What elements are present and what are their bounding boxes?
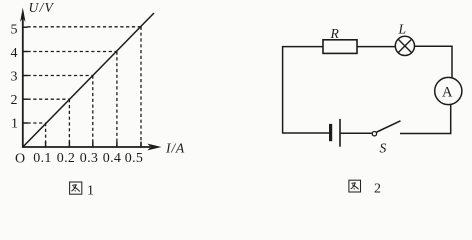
svg-text:2: 2 bbox=[374, 182, 381, 197]
x-axis arrowhead bbox=[148, 144, 162, 151]
svg-text:0.4: 0.4 bbox=[103, 151, 121, 166]
svg-text:4: 4 bbox=[11, 46, 18, 61]
x tick 0.3 bbox=[92, 142, 94, 147]
dashed horizontal U=3 bbox=[28, 75, 93, 77]
svg-text:1: 1 bbox=[87, 184, 94, 199]
x tick 0.2 bbox=[68, 142, 70, 147]
svg-text:0.3: 0.3 bbox=[80, 151, 98, 166]
dashed vertical I=0.2 bbox=[68, 99, 70, 146]
wire lamp to top-right corner bbox=[415, 46, 453, 78]
y tick 5 bbox=[23, 26, 28, 28]
battery positive plate (long thin) bbox=[339, 119, 341, 147]
wire battery to switch bbox=[340, 132, 372, 134]
wire bottom-left to battery bbox=[282, 132, 330, 134]
wire resistor to lamp bbox=[357, 46, 395, 48]
U-I characteristic line bbox=[23, 13, 154, 147]
svg-text:5: 5 bbox=[11, 22, 18, 37]
caption 图2 glyph 图 bbox=[349, 180, 361, 192]
svg-text:0.1: 0.1 bbox=[33, 151, 51, 166]
lamp X cross bbox=[398, 39, 412, 53]
dashed vertical I=0.1 bbox=[45, 123, 47, 147]
svg-text:S: S bbox=[380, 141, 387, 156]
x tick 0.4 bbox=[116, 142, 118, 147]
y tick 1 bbox=[23, 122, 28, 124]
wire top-left horizontal bbox=[283, 47, 323, 133]
ammeter A circle bbox=[435, 77, 462, 104]
svg-text:0.2: 0.2 bbox=[57, 151, 75, 166]
y-axis arrowhead bbox=[20, 8, 25, 23]
svg-text:0.5: 0.5 bbox=[125, 151, 143, 166]
switch pivot circle bbox=[372, 132, 376, 136]
y tick 3 bbox=[23, 75, 28, 77]
dashed horizontal U=2 bbox=[28, 98, 70, 100]
wire ammeter down to bottom-right corner bbox=[400, 105, 451, 134]
x tick 0.1 bbox=[45, 142, 47, 147]
dashed vertical I=0.5 bbox=[140, 27, 142, 147]
svg-text:2: 2 bbox=[11, 93, 18, 108]
svg-text:O: O bbox=[15, 151, 25, 166]
caption 图1 glyph 图 bbox=[70, 182, 82, 194]
dashed horizontal U=5 bbox=[28, 26, 142, 28]
y-axis U bbox=[22, 15, 24, 148]
dashed horizontal U=1 bbox=[28, 122, 46, 124]
svg-text:U/V: U/V bbox=[29, 0, 55, 15]
svg-text:L: L bbox=[398, 22, 407, 37]
y tick 4 bbox=[23, 51, 28, 53]
dashed horizontal U=4 bbox=[28, 51, 117, 53]
resistor R bbox=[323, 40, 357, 54]
y tick 2 bbox=[23, 98, 28, 100]
x-axis I bbox=[22, 146, 150, 148]
x tick 0.5 bbox=[140, 142, 142, 147]
battery negative plate (short thick) bbox=[329, 124, 332, 141]
svg-text:R: R bbox=[330, 26, 340, 41]
lamp L circle bbox=[395, 36, 414, 55]
switch S lever bbox=[376, 121, 400, 133]
dashed vertical I=0.3 bbox=[92, 76, 94, 147]
dashed vertical I=0.4 bbox=[116, 52, 118, 147]
svg-text:I/A: I/A bbox=[165, 141, 185, 156]
svg-text:A: A bbox=[442, 85, 453, 101]
svg-text:1: 1 bbox=[11, 116, 18, 131]
svg-text:3: 3 bbox=[11, 70, 18, 85]
